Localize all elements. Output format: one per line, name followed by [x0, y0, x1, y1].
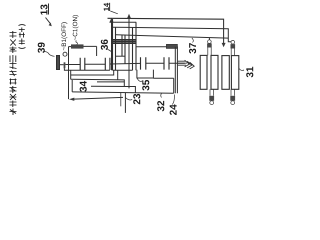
label 14 (rotated) — [104, 3, 109, 11]
up arrow 1 — [111, 22, 113, 71]
case bottom long line — [72, 92, 174, 93]
label 13 underline — [48, 4, 50, 15]
clutch C1 (engaged, dark bar) — [71, 44, 84, 48]
gear mesh 3 — [141, 57, 146, 69]
shaft line L2 — [113, 27, 231, 42]
vertical right of cluster — [117, 70, 119, 79]
MG rotor box 2 — [211, 55, 218, 89]
nested case bottom 2 — [71, 70, 114, 75]
planetary cluster verticals — [113, 19, 137, 70]
nested case bottom 3 / output step — [71, 79, 136, 93]
label 14 underline — [109, 3, 111, 11]
coupling dark bar — [166, 44, 177, 48]
label 39 leader — [45, 52, 55, 57]
label 31 (rotated) — [246, 67, 253, 78]
nested case bottom 1 — [64, 68, 110, 70]
cluster cross links — [110, 21, 137, 23]
label 32 (rotated) — [157, 101, 164, 111]
label Cn(ON) (rotated text) — [73, 15, 79, 40]
torque flow chevrons — [178, 61, 187, 65]
label 39 (rotated) — [38, 42, 45, 53]
brake stub wire — [60, 64, 64, 66]
label 36 (rotated) — [101, 39, 108, 50]
small ring — [63, 52, 67, 56]
gear mesh 4 — [164, 57, 169, 69]
gear mesh 1 — [80, 58, 85, 70]
shaft stub 2 — [120, 93, 122, 106]
label 34 (rotated) — [80, 81, 87, 92]
label 23 (rotated) — [133, 94, 140, 104]
label 31 leader — [239, 68, 244, 70]
up arrow 2 (shaft v5) — [128, 18, 130, 89]
MG1 top winding — [208, 40, 212, 44]
MG rotor box 1 — [200, 55, 207, 89]
clutch squiggle leader — [76, 41, 78, 45]
shaft line L1 — [108, 18, 224, 43]
label 24 (rotated) — [170, 104, 177, 115]
MG1 bottom winding — [210, 89, 213, 96]
inner box (ring gear) — [137, 70, 154, 78]
label 37 leader — [192, 38, 193, 43]
brake B1 (hatched bar) — [57, 56, 60, 70]
return flow arrow — [74, 97, 123, 99]
label 13 arrow — [46, 18, 51, 25]
clutch output line L4 — [136, 46, 167, 48]
wire from clutch — [84, 46, 97, 56]
MG rotor box 4 — [231, 56, 238, 90]
shaft 23 stub — [124, 93, 126, 113]
case top edge — [69, 46, 72, 48]
gear mesh 2 — [105, 58, 110, 70]
caption line 1 (rotated Japanese text) — [10, 31, 17, 115]
label 35 (rotated) — [142, 80, 149, 91]
label 13 (figure number, rotated) — [40, 5, 47, 15]
label 37 (rotated) — [189, 43, 196, 53]
case right box top — [153, 78, 173, 93]
label 35 leader — [137, 78, 142, 81]
label 24 leader — [172, 95, 175, 105]
main gear line (lay shaft) — [65, 63, 184, 64]
caption line 2 (rotated Japanese text, parenthesised) — [19, 25, 26, 49]
MG2 bottom winding — [231, 89, 234, 96]
label Bn(OFF) (rotated text) — [61, 22, 67, 50]
label 36 leader — [108, 50, 113, 53]
label 14 leader — [110, 11, 118, 14]
MG2 top winding — [231, 40, 235, 44]
flywheel vertical — [175, 47, 177, 94]
MG rotor box 3 — [222, 56, 229, 90]
brake hub plate — [64, 62, 66, 68]
shaft line L3 — [116, 35, 228, 38]
winding stub — [208, 38, 210, 40]
L2 down arrowhead — [222, 43, 226, 47]
label 32 leader — [160, 94, 163, 98]
case left edges — [69, 47, 73, 100]
label 23 leader — [125, 98, 132, 100]
